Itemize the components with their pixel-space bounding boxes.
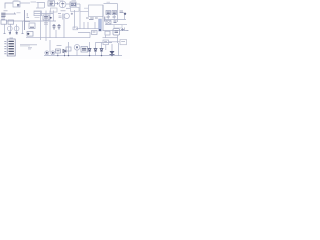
rectifier box U2 xyxy=(48,1,55,6)
wire v124 xyxy=(124,15,126,20)
wire h32 xyxy=(78,33,90,38)
junction dots bottom rail xyxy=(57,55,113,56)
wire v105 xyxy=(105,35,107,38)
wire vertical bus B xyxy=(79,4,81,29)
wire h42 right xyxy=(96,41,120,44)
wire right rail 37 xyxy=(103,37,118,39)
diode D3 xyxy=(63,50,66,53)
wire vertical x74 xyxy=(74,10,76,29)
led D1 xyxy=(45,51,49,55)
wire vertical left 4 xyxy=(22,21,24,34)
box U16 xyxy=(120,40,127,45)
transistor Q4 xyxy=(64,13,69,18)
rectifier text xyxy=(50,2,54,5)
box LTW xyxy=(81,47,88,53)
node junction dot xyxy=(50,17,52,19)
wire top right rail xyxy=(104,3,118,5)
diode bridge DB1 xyxy=(106,21,111,25)
transistor Q2 xyxy=(7,26,12,31)
transformer T1 xyxy=(13,1,20,7)
wire v95 xyxy=(95,42,97,56)
wire vertical left 2 xyxy=(10,24,12,33)
box U10 fill xyxy=(107,12,110,13)
label +5V xyxy=(120,11,124,13)
wire bus vertical v3 xyxy=(49,11,51,39)
transistor Q1 xyxy=(59,1,66,8)
wire horizontal mid xyxy=(34,13,53,15)
label row small xyxy=(35,17,40,19)
wire vertical left 1 xyxy=(4,24,6,33)
diode bridge DB1 cross xyxy=(107,21,111,24)
connector J1 pins xyxy=(9,41,14,54)
wire v117 down xyxy=(117,35,119,43)
capacitor C1 xyxy=(36,7,44,9)
box U12 xyxy=(105,31,110,35)
wire v118 low xyxy=(118,43,120,56)
box U13 xyxy=(56,49,61,53)
wire v68 xyxy=(68,42,70,56)
box U14 xyxy=(66,47,71,51)
relay K2 box xyxy=(8,20,14,24)
label U11 value xyxy=(113,16,117,17)
IC U7 xyxy=(43,15,49,20)
transistor Q3 xyxy=(14,26,19,31)
box U4 xyxy=(51,8,58,12)
ic bar blue U9 xyxy=(99,19,102,31)
label T1 xyxy=(14,0,19,2)
wire long mid rail xyxy=(26,37,90,39)
label NR xyxy=(17,12,21,14)
wire Q1 to X1 xyxy=(66,3,70,5)
IC U5 right edge xyxy=(102,5,104,31)
wire v77 xyxy=(76,50,78,56)
led D2 xyxy=(51,51,55,55)
wire vertical left 3 xyxy=(16,24,18,33)
transistor Q2 mark xyxy=(9,33,11,34)
wire stub left box xyxy=(34,11,41,13)
relay K1 box xyxy=(1,20,7,24)
lamp LP1 xyxy=(74,45,80,51)
box U15 xyxy=(103,40,109,45)
relay K3 xyxy=(113,29,120,35)
capacitor C3 xyxy=(1,18,5,19)
resistor R3 xyxy=(59,16,62,18)
label 3a xyxy=(4,10,8,12)
crystal X1 xyxy=(70,2,76,7)
label U9 pin xyxy=(104,17,106,22)
transistor Q3 mark xyxy=(16,33,18,34)
box U11 xyxy=(112,11,117,15)
capacitor C7 xyxy=(114,21,117,23)
lamp LP1 center dot xyxy=(76,46,78,48)
ground pin 4 xyxy=(22,33,24,35)
box U6 xyxy=(29,23,35,29)
IC U5 main micro xyxy=(89,5,104,17)
plus mark right xyxy=(121,28,124,31)
resistor R2 xyxy=(44,23,48,24)
box U8 mark xyxy=(93,31,96,33)
label on right rail xyxy=(107,1,111,3)
wire right drop xyxy=(117,4,119,22)
wire v50 lower xyxy=(49,40,51,52)
box U3 below X1 xyxy=(71,7,80,11)
led D1 dot xyxy=(46,52,48,54)
box U13 mark xyxy=(57,50,60,52)
relay K3 core xyxy=(115,31,119,33)
zener D5 xyxy=(94,49,97,52)
wire v124b xyxy=(125,28,129,31)
lamp LP1 mark xyxy=(76,46,78,48)
wire T1 output xyxy=(20,2,30,4)
text annotation row2 xyxy=(20,45,30,47)
wire X1 right xyxy=(76,3,80,5)
capacitor C5 polarized xyxy=(58,24,61,30)
wire h58 xyxy=(58,14,63,20)
box U8 xyxy=(92,31,98,35)
wire C2 to bus xyxy=(6,13,17,15)
label Q5 xyxy=(28,48,32,49)
wire v80-29 xyxy=(84,22,95,29)
plus junction xyxy=(71,13,73,15)
wire vertical x64 xyxy=(63,14,65,39)
diode D7 xyxy=(110,51,115,55)
box U11 fill xyxy=(113,12,116,13)
wire bus vertical v4 xyxy=(52,11,54,22)
wire right rail 24 xyxy=(105,24,127,26)
wire bus vertical v1 xyxy=(40,11,42,41)
wire right rail 19 xyxy=(104,19,126,21)
node A junction xyxy=(57,2,59,5)
box U15 mark xyxy=(104,41,107,43)
transformer T1 core mark xyxy=(17,5,19,6)
wire mid-left rail xyxy=(6,20,56,22)
text annotation row xyxy=(20,44,37,46)
connector J1 body xyxy=(7,39,15,56)
diode D7 bar xyxy=(110,54,115,56)
crystal X1 plates xyxy=(71,3,75,5)
dot component xyxy=(124,13,126,15)
connector J1 top notch xyxy=(10,37,14,39)
wire bus vertical v2 xyxy=(45,11,47,42)
wire bottom rail xyxy=(44,55,122,57)
label box right xyxy=(114,25,122,28)
resistor R1 value label xyxy=(31,1,37,3)
label q4 xyxy=(61,10,66,12)
label Q1 xyxy=(59,0,64,2)
wire v57 xyxy=(58,53,65,56)
led D2 dot xyxy=(52,52,54,54)
wire v89 xyxy=(89,42,91,56)
ground pin 1 xyxy=(4,33,6,35)
wire v56 xyxy=(55,30,57,38)
U5 pin labels xyxy=(86,18,98,20)
wire v108 xyxy=(108,15,114,20)
wire main vertical bus xyxy=(24,10,26,30)
crystal Y1 dot xyxy=(27,33,29,35)
wire rect to Q1 xyxy=(55,3,60,5)
box U10 xyxy=(106,11,111,15)
capacitor C4 polarized xyxy=(53,24,56,30)
transistor Q1 internals xyxy=(62,1,64,8)
wire mid rail 2 xyxy=(76,28,99,30)
electrolytic capacitor C2 xyxy=(1,13,5,16)
header J2 xyxy=(34,11,42,16)
wire right rail 30 xyxy=(103,30,129,32)
wire to filter xyxy=(37,3,45,9)
IC U7 text xyxy=(44,17,48,19)
inductor L1 xyxy=(66,7,71,9)
label U10 value xyxy=(107,16,111,17)
zener D6 xyxy=(100,49,103,52)
zener D4 xyxy=(88,49,91,52)
box LTW text xyxy=(82,48,86,50)
wire v112 xyxy=(111,44,113,56)
box U6 mark xyxy=(30,26,34,28)
wire v106 low xyxy=(105,45,107,50)
ic bar dot xyxy=(99,29,101,31)
box U16 mark xyxy=(121,41,125,43)
wire v101 xyxy=(101,43,103,56)
wire input top-left xyxy=(5,3,13,9)
label above X1 xyxy=(72,0,77,2)
wire branch k xyxy=(25,13,31,22)
connector J1 pin numbers xyxy=(4,41,6,54)
crystal Y1 xyxy=(27,32,33,37)
label 2n2 xyxy=(57,45,62,47)
wire under U5 label row xyxy=(80,8,89,11)
resistor R4 xyxy=(73,27,78,30)
